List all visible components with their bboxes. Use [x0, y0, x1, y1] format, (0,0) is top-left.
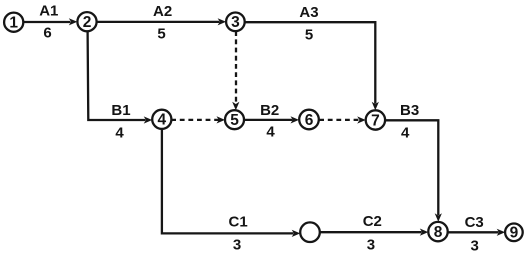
node 3	[226, 12, 245, 31]
svg-text:4: 4	[115, 125, 124, 142]
svg-text:C1: C1	[229, 214, 248, 231]
wire C2 arrow dummy-8	[320, 229, 429, 236]
node 4	[152, 110, 171, 129]
node 5	[225, 110, 244, 129]
dashed dummy arrow 3-5	[232, 31, 239, 110]
wire C3 arrow 8-9	[448, 229, 506, 236]
wire A3 arrow 3-7	[245, 22, 379, 110]
svg-text:3: 3	[233, 237, 241, 253]
svg-text:5: 5	[157, 26, 165, 43]
svg-text:3: 3	[367, 237, 375, 253]
wire B3 arrow 7-8	[385, 120, 442, 222]
node 6	[299, 110, 319, 130]
svg-text:C2: C2	[363, 213, 382, 230]
node 2	[77, 12, 96, 31]
svg-text:4: 4	[401, 125, 410, 142]
svg-text:A1: A1	[39, 3, 58, 20]
dashed dummy arrow 6-7	[319, 116, 366, 123]
svg-text:B1: B1	[111, 102, 130, 119]
svg-text:1: 1	[9, 15, 18, 32]
svg-text:4: 4	[157, 112, 166, 129]
node 9	[505, 224, 523, 242]
node dummy	[300, 222, 320, 242]
wire B2 arrow 5-6	[244, 116, 299, 123]
wire A1 arrow 1-2	[23, 18, 77, 25]
svg-text:2: 2	[83, 14, 92, 31]
dashed dummy arrow 4-5	[171, 116, 225, 123]
node 1	[4, 13, 23, 32]
svg-text:A3: A3	[299, 4, 318, 21]
wire A2 arrow 2-3	[97, 18, 226, 25]
svg-text:9: 9	[510, 225, 519, 242]
svg-text:3: 3	[231, 14, 240, 31]
svg-text:7: 7	[371, 112, 380, 129]
node 7	[366, 110, 385, 129]
svg-text:5: 5	[230, 112, 239, 129]
svg-text:3: 3	[471, 238, 479, 253]
svg-text:8: 8	[434, 224, 443, 241]
svg-text:6: 6	[43, 25, 51, 42]
svg-text:C3: C3	[465, 214, 484, 231]
node 8	[428, 222, 447, 241]
svg-text:6: 6	[305, 112, 314, 129]
svg-text:5: 5	[305, 27, 313, 44]
svg-text:4: 4	[266, 124, 275, 141]
svg-text:B3: B3	[400, 102, 419, 119]
wire C1 arrow 4-dummy	[162, 129, 300, 237]
wire B1 arrow 2-4	[88, 31, 153, 123]
svg-text:B2: B2	[260, 102, 279, 119]
svg-text:A2: A2	[153, 3, 172, 20]
